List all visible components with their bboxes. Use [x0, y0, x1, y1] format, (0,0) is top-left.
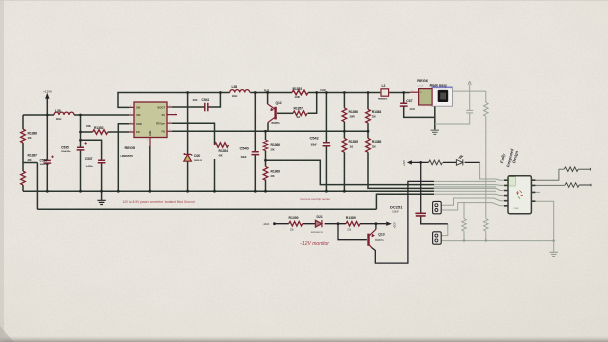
svg-text:22K: 22K [372, 147, 376, 149]
label C537 [85, 157, 94, 168]
wire Q13 emitter riser [375, 224, 377, 230]
wire D20 riser from switch rail [187, 93, 189, 155]
wire R1384 bottom to FB [367, 123, 369, 131]
wire REG6 gnd down [434, 105, 436, 130]
IC left pin stubs [504, 180, 508, 206]
resistor R1353 [292, 90, 308, 95]
svg-text:R1390: R1390 [289, 216, 299, 220]
wire x37 down to long bottom rail [36, 163, 38, 210]
svg-text:GND: GND [149, 130, 152, 136]
label L38 [232, 85, 238, 98]
svg-text:VI: VI [420, 92, 422, 94]
wire R1369 bottom to ground rail [265, 180, 267, 192]
svg-text:+3C9: +3C9 [394, 222, 397, 229]
transistor Q13 [369, 229, 376, 247]
wire -12VA row [275, 223, 387, 225]
resistor R1386 [21, 129, 26, 143]
wire Q13 base loop [338, 224, 367, 240]
label R1353 [293, 87, 303, 99]
resistor R1369 [263, 166, 268, 180]
wire FB run y=131.3 [172, 130, 368, 132]
IC internal marks [509, 179, 519, 210]
svg-text:22uH: 22uH [56, 119, 62, 121]
wire R1366 top lead [265, 131, 267, 140]
wire connector J2 pin1 riser [441, 224, 447, 236]
capacitor on REG6 output [435, 91, 473, 124]
svg-text:1: 1 [170, 105, 171, 107]
svg-text:BC807A: BC807A [375, 239, 384, 242]
svg-text:7: 7 [130, 113, 131, 115]
label DC251 [390, 205, 403, 214]
resistor R1385 [366, 138, 371, 152]
label R1355 [349, 140, 359, 149]
resistor (vertical, connector pull-down a) [462, 219, 467, 232]
wire SW pin up-over to switch rail [118, 93, 230, 108]
wire bottom rail rise to bus [376, 194, 434, 209]
resistor R1355 [342, 138, 347, 152]
svg-text:100uF/25v: 100uF/25v [40, 164, 50, 166]
svg-text:SS: SS [162, 113, 166, 117]
label R1356 [349, 110, 359, 119]
resistor R1390 [289, 221, 303, 226]
wire R1355 bottom to ground rail [343, 152, 345, 191]
resistor (vertical, REG6 output) [484, 102, 489, 116]
resistor R1352 [93, 130, 108, 135]
label R1386 [28, 132, 38, 141]
wire R1384 top lead [367, 93, 369, 110]
wire C541 right to switch rail [208, 93, 221, 108]
svg-text:L38: L38 [232, 85, 238, 89]
capacitor C542 [323, 143, 331, 146]
wire Q13 collector drop and loop to bus [372, 181, 435, 263]
label R1389 [346, 216, 356, 231]
svg-text:REG5: REG5 [125, 145, 136, 150]
svg-text:simple: simple [417, 85, 424, 87]
wire input rail y=115 left part to L39 [23, 114, 54, 116]
capacitor C541 [205, 103, 208, 111]
svg-text:8: 8 [170, 130, 171, 132]
wire C537 branch [81, 140, 102, 160]
svg-text:10nF: 10nF [193, 100, 199, 102]
svg-text:FB0805HG: FB0805HG [378, 98, 388, 100]
polarity mark C536 [51, 156, 54, 159]
svg-text:B230-13: B230-13 [194, 160, 202, 162]
svg-text:PWR: PWR [514, 208, 519, 210]
label Q12 [272, 101, 282, 125]
svg-text:R1369: R1369 [271, 169, 281, 173]
ground symbol bottom right [550, 252, 558, 256]
net arrow left +3v9 [407, 160, 412, 164]
wire BOOT to C541 [172, 106, 205, 108]
label D21 [311, 215, 324, 234]
svg-text:L2: L2 [382, 84, 386, 88]
svg-text:22K: 22K [372, 117, 376, 119]
svg-text:D20: D20 [194, 154, 200, 158]
REG6 chip square [438, 90, 449, 102]
svg-text:R1389: R1389 [346, 216, 356, 220]
svg-text:3: 3 [170, 121, 171, 123]
label C540 [240, 146, 250, 160]
svg-text:4.7uF: 4.7uF [410, 108, 416, 111]
wire REG5 GND pin over and down to ground rail [118, 124, 129, 191]
svg-text:+12VA: +12VA [43, 90, 52, 94]
svg-text:Current overtrip sense: Current overtrip sense [300, 197, 330, 201]
svg-text:22uH: 22uH [232, 96, 238, 98]
resistor R1356 [342, 108, 347, 122]
svg-text:R1354: R1354 [219, 149, 229, 153]
transistor Q12 [268, 104, 276, 123]
wire to bottom rail [485, 231, 487, 241]
svg-text:VIN: VIN [136, 113, 140, 117]
svg-text:DC251: DC251 [390, 205, 403, 210]
svg-text:R1356: R1356 [349, 110, 359, 114]
wire DC251 bottom over to J2 [421, 216, 448, 224]
svg-text:C535: C535 [61, 145, 69, 149]
wire connector J1 pin1 riser [441, 198, 504, 205]
wire R1355 top lead [343, 131, 345, 138]
svg-text:5: 5 [130, 130, 131, 132]
resistor (horizontal, far right top) [564, 167, 591, 187]
svg-text:BOOT: BOOT [158, 105, 166, 109]
red annotation texts [123, 197, 331, 247]
REG5 pin names [136, 105, 165, 136]
connector J2 [433, 232, 442, 244]
label R1352 [86, 126, 104, 130]
label C67 [406, 99, 415, 111]
capacitor C537 [98, 160, 106, 163]
svg-text:1uF/25v: 1uF/25v [86, 166, 94, 168]
wire IC right stub [535, 191, 540, 193]
wire C537 bottom to ground rail [101, 163, 103, 191]
label R1390 [289, 216, 299, 231]
IC U1 (right connector interface) [504, 176, 535, 214]
net arrow right [386, 222, 392, 226]
wire REG6 output [452, 90, 485, 92]
wire ground rail y=191.2 [23, 190, 369, 192]
svg-text:RT/Syn: RT/Syn [156, 121, 165, 125]
net arrow up at REG6 output [469, 84, 471, 91]
wire C535 riser from rail [80, 115, 82, 147]
capacitor C67 [400, 103, 408, 106]
wire C540 riser [254, 93, 256, 152]
svg-text:C542: C542 [310, 136, 320, 141]
svg-text:4.32K: 4.32K [295, 96, 301, 99]
svg-text:42K: 42K [219, 155, 223, 158]
svg-text:R1355: R1355 [349, 140, 359, 144]
svg-text:R1387: R1387 [28, 154, 38, 158]
LED D-ind [456, 155, 463, 165]
wire R1352 branch to EN [81, 131, 130, 133]
svg-text:-12VA: -12VA [263, 223, 270, 226]
label R1366 [271, 143, 281, 152]
label R1385 [372, 140, 382, 149]
connector J1 [433, 201, 442, 213]
svg-text:C536: C536 [40, 159, 48, 163]
diode D20 zener [184, 153, 193, 161]
label R1354 [219, 149, 229, 158]
wire R1356 top lead [343, 93, 345, 108]
svg-text:22K: 22K [271, 150, 275, 152]
svg-text:GND: GND [136, 122, 142, 126]
component labels left section [28, 84, 416, 178]
wire R1357 right to switch rail [308, 93, 317, 114]
inductor L38 [230, 90, 250, 93]
label C542 [310, 136, 320, 147]
wire REG5 bottom pad to ground rail [149, 146, 151, 191]
resistor chain from REG6 output down [485, 91, 487, 102]
svg-text:R1357: R1357 [294, 106, 304, 110]
wire Q12 emitter riser [267, 93, 269, 105]
svg-text:BC807A: BC807A [272, 122, 281, 125]
polarity mark C535 [84, 142, 87, 145]
svg-text:42K: 42K [28, 137, 32, 140]
svg-text:BZX284C12: BZX284C12 [311, 232, 324, 234]
wire R1354 bottom to ground rail [214, 159, 216, 191]
svg-text:C541: C541 [202, 98, 210, 102]
wire R1386 bottom to R1387 top [22, 143, 24, 171]
wire current-sense branch [266, 160, 435, 184]
junction dots [46, 91, 405, 193]
wire Q12 collector drop to FB [267, 123, 269, 132]
svg-text:REG6: REG6 [417, 78, 428, 83]
wire R1385 top lead [367, 131, 369, 138]
resistor R-led (series with LED) [429, 160, 443, 165]
wire R1366 to R1369 [265, 151, 267, 167]
wire DC251 column [420, 162, 422, 213]
svg-text:C537: C537 [85, 157, 93, 161]
wire C536 riser [46, 115, 48, 160]
wire C67 bottom to REG6 gnd [404, 106, 435, 117]
inductor L39 [54, 112, 74, 115]
REG6 body [419, 89, 433, 105]
wire LED branch drop to IC [480, 162, 504, 180]
svg-text:330R: 330R [350, 117, 355, 119]
capacitor C535 [77, 147, 85, 150]
svg-text:100uF: 100uF [241, 157, 248, 159]
svg-text:FL02: FL02 [321, 89, 327, 92]
IC right pin stubs [531, 180, 535, 201]
svg-text:FL02: FL02 [264, 90, 270, 93]
label R1384 [372, 110, 382, 119]
label L2 [378, 84, 388, 100]
label R1369 [271, 169, 281, 178]
wire IC right pin to bottom resistor [535, 184, 565, 186]
svg-text:100nF: 100nF [392, 212, 399, 214]
label D20 [194, 154, 202, 162]
wire long bottom rail y=209.3 [37, 208, 376, 210]
svg-text:R1386: R1386 [28, 132, 38, 136]
wire IC right pin to top resistor [535, 169, 564, 180]
wire R1356 bottom to FB [343, 122, 345, 132]
wire +12VA feed down to input rail [46, 99, 48, 116]
capacitor DC251 [415, 213, 426, 216]
REG6 pin stub [410, 91, 419, 93]
wire IC right pin to ground drop [535, 201, 554, 252]
wire connector J1 pin2 riser [441, 203, 504, 210]
ferrite bead L2 box [381, 89, 389, 96]
junction dots -12V row [273, 161, 555, 242]
REG5 regulator body [129, 102, 177, 146]
wire ground stub below rail [101, 191, 103, 200]
wire C540 bottom to ground rail [254, 155, 256, 191]
IC red glyph [516, 191, 523, 199]
wire input rail L39 to VIN pin of REG5 [74, 114, 129, 116]
capacitor C540 [251, 152, 259, 155]
wire R1385 bottom to bus [368, 152, 434, 188]
svg-text:R1385: R1385 [372, 140, 382, 144]
label Q13 [375, 233, 385, 243]
diode D21 [315, 220, 322, 227]
svg-text:6: 6 [130, 106, 131, 108]
wire D20 anode to ground rail [187, 162, 189, 192]
wire ground rail continues as bus line [369, 190, 434, 192]
svg-text:22K: 22K [271, 176, 275, 178]
svg-text:C540: C540 [240, 146, 250, 151]
wire branch node A to x37 [23, 162, 37, 164]
power +12VA [43, 90, 52, 99]
svg-text:4: 4 [130, 122, 131, 124]
wire resistor a riser [463, 202, 465, 219]
svg-text:R1384: R1384 [372, 110, 382, 114]
svg-text:7: 7 [175, 113, 176, 115]
wire resistor a bottom [463, 231, 465, 241]
label C535 [61, 145, 71, 153]
svg-text:EN: EN [136, 130, 140, 134]
svg-text:22K: 22K [28, 160, 32, 162]
svg-text:LM22670/5V: LM22670/5V [121, 155, 134, 158]
wire R1387 bottom to ground rail [22, 185, 24, 191]
REG6 module [410, 78, 453, 106]
svg-text:L39: L39 [55, 109, 61, 113]
wire Q12 base to R1357 [277, 112, 293, 114]
svg-text:R1352: R1352 [94, 126, 104, 130]
svg-text:100uF: 100uF [311, 144, 318, 146]
ground symbol REG6 [431, 130, 439, 134]
wire C535 bottom to ground rail [80, 150, 82, 191]
bus light continuations to IC pins [434, 181, 504, 195]
label REG5 [121, 145, 136, 158]
wire left column to R1386 [22, 115, 24, 129]
pin numbers [130, 90, 413, 141]
wire +3v9 arrow row [411, 161, 480, 163]
label R1357 [294, 106, 304, 119]
resistor R1384 [366, 109, 371, 123]
capacitor C536 [43, 160, 51, 163]
svg-text:12V to 8.5V power converter. I: 12V to 8.5V power converter. Isolated Mo… [123, 200, 195, 204]
svg-text:SW: SW [136, 106, 141, 110]
resistor (vertical, lower right of connector area) [484, 219, 489, 232]
ground symbol main rail [97, 200, 105, 204]
wire C542 riser [325, 93, 327, 143]
svg-text:FB: FB [162, 130, 166, 134]
wire switch rail L38 to L2 [250, 92, 410, 94]
svg-text:100uF/25v: 100uF/25v [61, 151, 71, 153]
resistor R1366 [263, 140, 268, 151]
REG5 pin stubs [129, 107, 177, 146]
wire C542 bottom to ground rail [325, 146, 327, 191]
wire C536 bottom to ground rail [46, 163, 48, 191]
label C541 [193, 98, 210, 102]
svg-text:Q12: Q12 [276, 101, 282, 105]
wire RT/Sync to R1354 [172, 123, 215, 145]
svg-text:+3v9: +3v9 [403, 160, 406, 166]
svg-text:-12V monitor: -12V monitor [300, 241, 329, 247]
wire long drop to lower resistor [485, 116, 487, 218]
wire bottom-right rail [441, 240, 553, 242]
svg-text:R1366: R1366 [271, 143, 281, 147]
label C536 [40, 159, 50, 167]
resistor R1354 [215, 143, 229, 148]
svg-text:Q13: Q13 [378, 233, 385, 237]
wire C67 riser [403, 93, 405, 104]
REG6 photo part background [432, 87, 453, 106]
svg-text:C67: C67 [406, 99, 412, 103]
resistor R1357 [293, 111, 307, 116]
resistor R1387 [21, 171, 26, 185]
svg-text:Made Easy: Made Easy [430, 84, 449, 88]
svg-text:R1353: R1353 [293, 87, 303, 91]
resistor R1389 [346, 221, 360, 226]
net arrow head up (REG6 output) [468, 81, 471, 85]
svg-text:9: 9 [147, 140, 148, 142]
svg-text:D21: D21 [317, 215, 323, 219]
label L39 [55, 109, 62, 121]
label R1387 [28, 154, 38, 163]
